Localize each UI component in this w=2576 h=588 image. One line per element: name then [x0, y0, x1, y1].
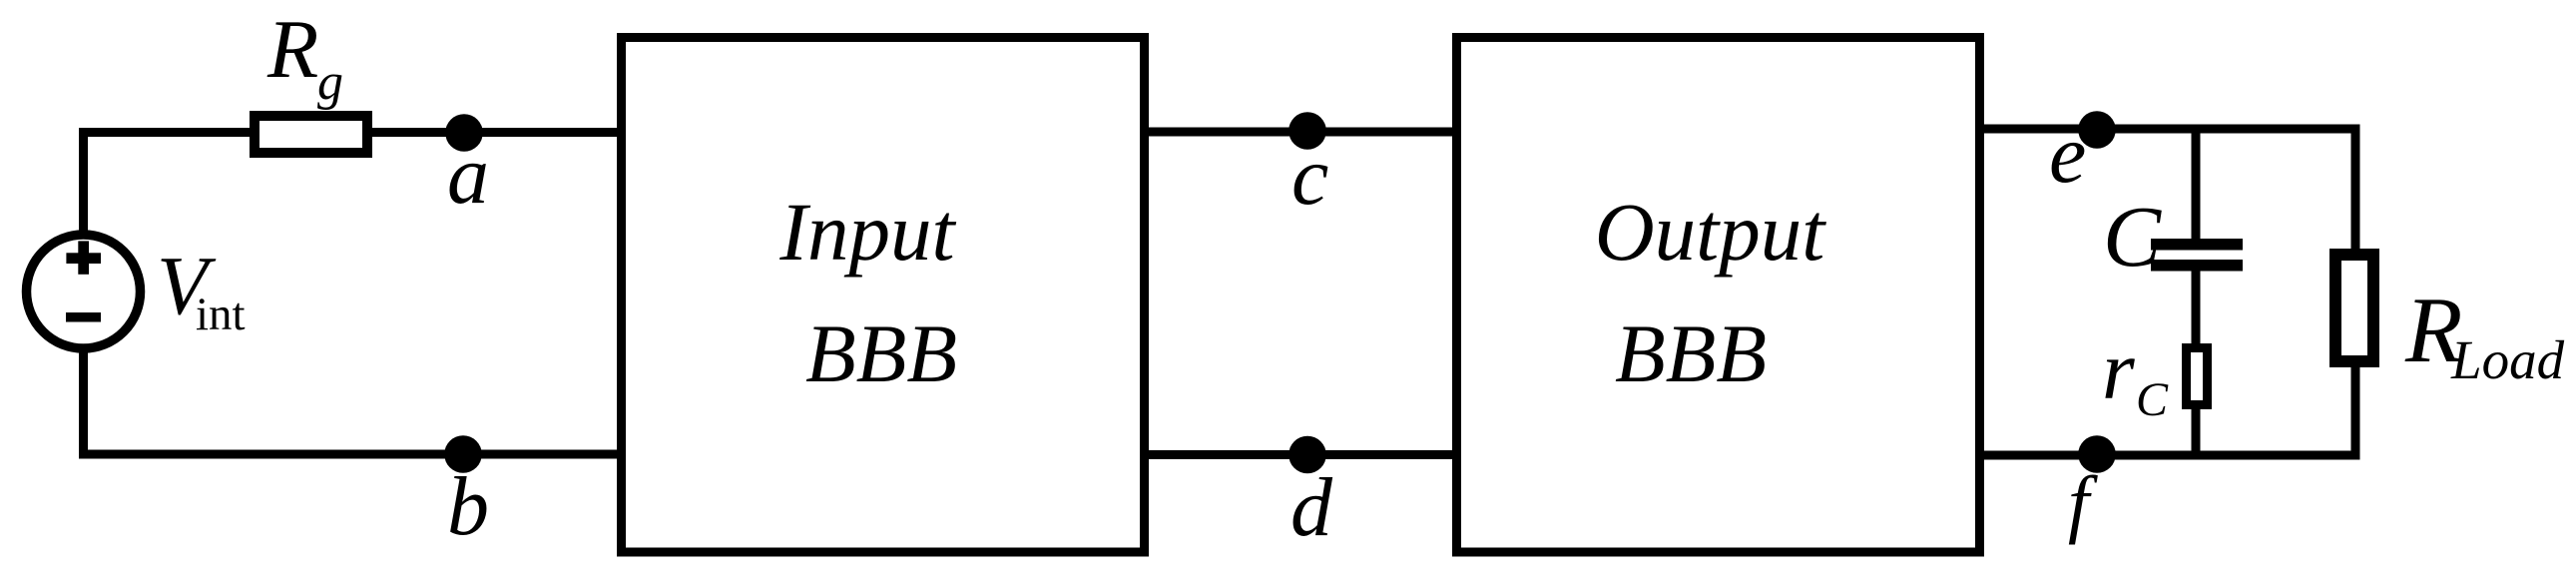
node a	[445, 114, 483, 152]
label Rg	[266, 3, 343, 111]
svg-text:b: b	[447, 460, 489, 553]
svg-text:f: f	[2068, 461, 2098, 545]
svg-text:Load: Load	[2450, 329, 2565, 390]
svg-text:int: int	[196, 289, 246, 340]
svg-text:a: a	[447, 129, 489, 222]
svg-text:Input: Input	[778, 186, 956, 278]
resistor Rg	[255, 116, 367, 153]
node c	[1288, 112, 1326, 150]
node d	[1288, 436, 1326, 474]
node b	[444, 435, 482, 473]
svg-text:C: C	[2136, 373, 2169, 426]
node f	[2078, 435, 2116, 473]
resistor rC	[2187, 348, 2208, 405]
voltage source U Vint circle	[27, 235, 141, 348]
voltage source plus sign	[66, 241, 101, 274]
capacitor C bottom plate	[2151, 260, 2243, 272]
label RLoad	[2404, 279, 2565, 390]
voltage source minus sign	[66, 312, 101, 322]
node e	[2078, 111, 2116, 149]
resistor RLoad	[2335, 255, 2373, 361]
block Input BBB	[622, 38, 1145, 553]
svg-text:C: C	[2103, 188, 2162, 285]
label Vint	[157, 240, 246, 340]
svg-text:BBB: BBB	[805, 307, 957, 399]
svg-text:BBB: BBB	[1615, 307, 1767, 399]
svg-text:d: d	[1290, 461, 1333, 554]
wire capacitor branch lower	[2192, 266, 2201, 455]
svg-text:e: e	[2049, 108, 2086, 201]
wire middle top (Input to Output)	[1149, 128, 1452, 137]
svg-text:r: r	[2102, 324, 2135, 417]
svg-text:R: R	[266, 3, 318, 96]
wire capacitor branch upper	[2192, 129, 2201, 244]
svg-text:Output: Output	[1595, 186, 1827, 278]
block Output BBB	[1457, 38, 1980, 553]
wire left loop (source to Input block)	[84, 133, 618, 455]
wire right loop (Output to RLoad branch)	[1983, 129, 2355, 455]
svg-text:c: c	[1291, 130, 1328, 223]
svg-text:g: g	[317, 54, 343, 111]
capacitor C top plate	[2151, 239, 2243, 251]
label rC	[2102, 324, 2169, 426]
wire middle bottom (Input to Output)	[1149, 450, 1452, 459]
